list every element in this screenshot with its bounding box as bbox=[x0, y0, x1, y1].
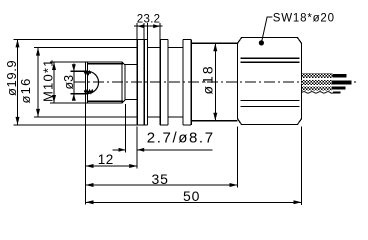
flange 1 (Ø19.9) bbox=[137, 39, 147, 125]
wire 2 braid bbox=[302, 80, 332, 85]
wire 4 wavy bbox=[302, 92, 333, 94]
flange 3 bbox=[183, 39, 191, 125]
dim Ø16: dimension line with arrows bbox=[37, 48, 39, 117]
dim 50: dimension line bbox=[86, 201, 302, 203]
diaphragm dome bbox=[88, 71, 99, 93]
wire 1 tip bbox=[333, 74, 347, 78]
leader SW18*Ø20 bbox=[261, 17, 272, 43]
wire 4 tip bbox=[333, 91, 341, 93]
hex flat lines lower bbox=[241, 101, 300, 107]
section B (Ø16) bbox=[148, 48, 161, 117]
svg-text:23.2: 23.2 bbox=[137, 13, 161, 25]
dim Ø18: dimension line with arrows bbox=[214, 43, 216, 121]
dim Ø19.9: extension lines bbox=[14, 39, 138, 125]
port body M10 outline bbox=[86, 62, 126, 103]
section C (Ø16) bbox=[168, 48, 183, 117]
port right end face line bbox=[121, 62, 123, 103]
hole line bottom (Ø3 extension) bbox=[71, 93, 89, 95]
tube Ø18 bbox=[191, 43, 237, 121]
svg-text:ø16: ø16 bbox=[18, 77, 33, 103]
svg-text:ø19.9: ø19.9 bbox=[4, 60, 19, 96]
svg-text:50: 50 bbox=[183, 188, 200, 204]
dim Ø19.9: dimension line with arrows bbox=[17, 39, 19, 125]
svg-text:35: 35 bbox=[152, 171, 169, 187]
dim Ø3: dimension line with arrows bbox=[73, 64, 75, 101]
dim 12: dimension line bbox=[86, 165, 138, 167]
wire 1 braid bbox=[302, 73, 333, 78]
wire 2 tip bbox=[332, 80, 352, 84]
dim 2.7/Ø8.7: extension lines bbox=[126, 104, 138, 169]
svg-text:ø3: ø3 bbox=[62, 75, 76, 90]
port thread chamfer inner lines bbox=[88, 64, 124, 102]
flange 2 bbox=[160, 39, 168, 125]
port left inner line bbox=[87, 62, 89, 103]
dim 50: extension line right bbox=[301, 127, 303, 205]
dim Ø16: extension lines bbox=[34, 48, 137, 117]
svg-text:2.7/ø8.7: 2.7/ø8.7 bbox=[147, 130, 215, 147]
dim 23.2: extension lines bbox=[137, 23, 160, 39]
hole line top (Ø3 extension) bbox=[71, 70, 89, 72]
hex flat lines upper bbox=[241, 58, 300, 62]
dim 23.2: dimension line bbox=[134, 25, 162, 27]
dim 2.7/Ø8.7: dimension line outside arrows bbox=[113, 149, 213, 151]
groove 2.7/Ø8.7 bbox=[125, 65, 137, 100]
svg-text:SW18*ø20: SW18*ø20 bbox=[273, 12, 335, 24]
svg-text:M10*1: M10*1 bbox=[41, 58, 56, 102]
dim M10*1: extension lines bbox=[50, 62, 86, 103]
wire 3 braid bbox=[302, 86, 332, 90]
dim 12: extension line left shared bbox=[85, 104, 87, 205]
dim M10*1: dimension line with arrows bbox=[53, 62, 55, 103]
svg-text:ø18: ø18 bbox=[200, 64, 216, 94]
svg-text:12: 12 bbox=[98, 152, 114, 167]
dim 35: extension line right bbox=[237, 127, 239, 188]
hatch wedge lower bbox=[84, 90, 93, 93]
hatch wedge upper bbox=[84, 72, 90, 75]
dim 35: dimension line bbox=[86, 184, 238, 186]
wire 3 tip bbox=[332, 87, 346, 90]
hex nut SW18*Ø20 outline bbox=[237, 38, 301, 125]
centerline bbox=[74, 81, 356, 83]
